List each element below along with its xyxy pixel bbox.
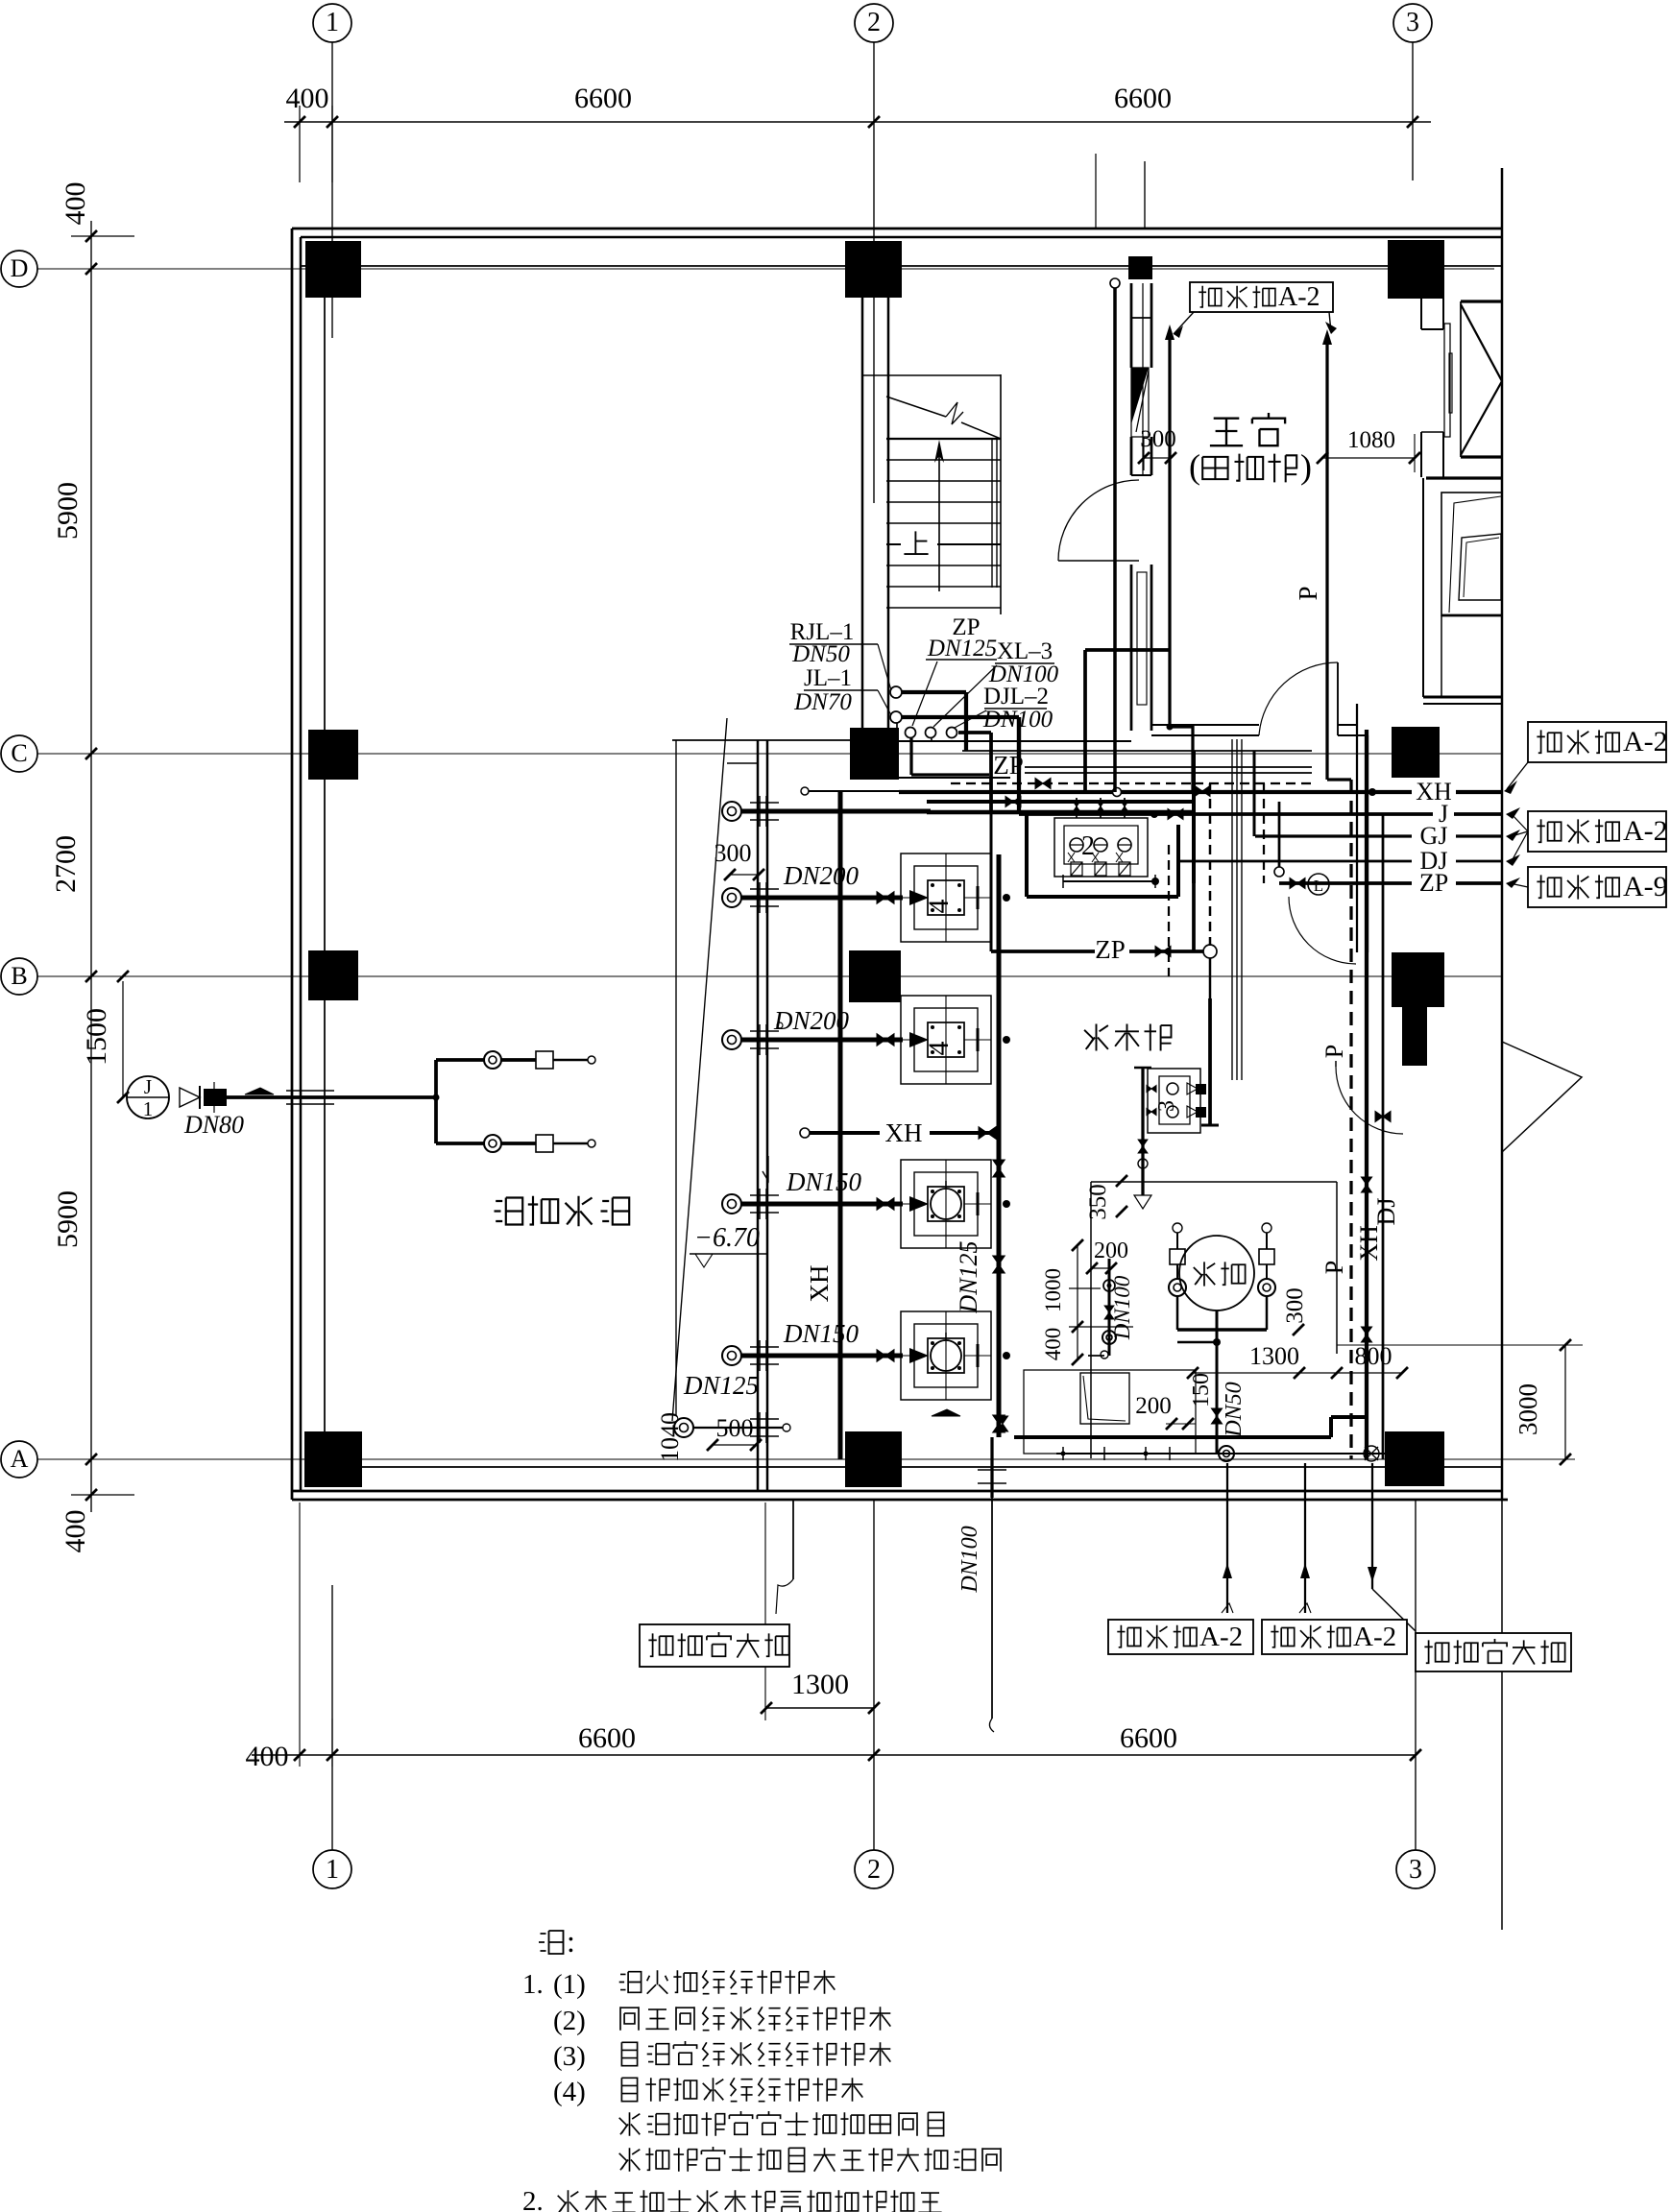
floor drain box xyxy=(1024,1370,1196,1454)
elevator shaft wall stub upper xyxy=(1420,299,1422,329)
tank connection left xyxy=(1173,1223,1182,1233)
svg-text:2: 2 xyxy=(1081,831,1095,861)
grid circle 2 bottom xyxy=(855,1850,893,1888)
svg-text:(1): (1) xyxy=(553,1969,586,2000)
svg-text:D: D xyxy=(11,254,29,282)
column A3 xyxy=(1385,1431,1444,1486)
svg-text:350: 350 xyxy=(1085,1184,1111,1220)
fire hydrant cabinet xyxy=(1131,368,1149,424)
svg-text:−6.70: −6.70 xyxy=(694,1223,760,1253)
wall pier D2.5 xyxy=(1128,256,1152,279)
water tank xyxy=(1179,1236,1254,1310)
fire pool east wall xyxy=(757,740,760,1491)
pressure gauge L xyxy=(1308,874,1329,895)
GJ main xyxy=(1255,834,1502,837)
pump group 2 assembly xyxy=(1054,818,1148,877)
wall sleeve at inlet xyxy=(286,1090,334,1092)
svg-text:400: 400 xyxy=(60,182,91,226)
front room west wall upper xyxy=(1130,283,1133,368)
DN100 outlet xyxy=(990,1437,993,1498)
stair label Shang xyxy=(904,531,928,554)
pump group 3 feed pipe xyxy=(1141,1068,1144,1195)
svg-text:DN125: DN125 xyxy=(955,1240,982,1313)
svg-text:2: 2 xyxy=(867,8,881,37)
inner wall face top xyxy=(301,265,1502,267)
manifold verticals xyxy=(990,751,993,951)
ZP down to pump room xyxy=(1209,958,1212,998)
pipe to teaching building left xyxy=(792,1500,794,1579)
outer wall left xyxy=(291,228,294,1500)
tank feed pipe DN100 xyxy=(1108,1259,1111,1356)
ZP main lower xyxy=(1279,881,1502,885)
suction pipe 6 DN125 xyxy=(674,1418,693,1437)
svg-text:DN50: DN50 xyxy=(1222,1382,1247,1437)
svg-text:400: 400 xyxy=(246,1741,289,1772)
tank stand xyxy=(1176,1295,1179,1330)
pump room east door arc xyxy=(1336,1067,1403,1134)
svg-text:3: 3 xyxy=(1409,1855,1422,1885)
pump group 2 discharge xyxy=(1027,895,1178,899)
stair up arrow xyxy=(938,451,940,591)
dim 300 pool xyxy=(730,874,759,876)
A-2 outlet pipe 1 xyxy=(1226,1463,1228,1613)
left dim text 1500 xyxy=(122,981,124,1097)
svg-text:1.: 1. xyxy=(522,1969,544,2000)
svg-text:150: 150 xyxy=(1189,1373,1214,1407)
front room west wall lower xyxy=(1130,565,1133,731)
column C2 xyxy=(850,728,899,780)
svg-text:800: 800 xyxy=(1355,1342,1392,1370)
leader box A-2 mid right xyxy=(1528,811,1666,852)
grid line 3 top xyxy=(1412,42,1414,180)
note 1 line 5 xyxy=(619,2112,641,2135)
riser DJ east xyxy=(1382,814,1385,1459)
svg-text:1080: 1080 xyxy=(1347,427,1395,453)
svg-text:DN70: DN70 xyxy=(793,689,852,715)
svg-text:DN100: DN100 xyxy=(982,707,1053,733)
svg-text:P: P xyxy=(1320,1045,1348,1058)
lobby south wall / pump room door wall xyxy=(1423,696,1502,699)
riser pipes xyxy=(902,690,966,694)
lobby door arc xyxy=(1289,897,1356,964)
grid line 2 bottom xyxy=(873,1500,875,1850)
leader box A-2 top xyxy=(1190,282,1333,312)
elevator wall stub mid xyxy=(1420,432,1422,477)
pump group 3 right pipe xyxy=(1208,998,1212,1125)
svg-text:JL–1: JL–1 xyxy=(804,665,852,691)
lobby east wall xyxy=(1356,704,1358,952)
grid line 2 top xyxy=(873,42,875,503)
grid line 1 bottom xyxy=(331,1585,333,1850)
top dimension line xyxy=(284,121,1431,123)
outer wall right xyxy=(1501,168,1504,1500)
XH riser front room xyxy=(1168,331,1171,727)
svg-text:XH: XH xyxy=(1355,1225,1383,1262)
inner wall face bottom xyxy=(362,1466,1502,1468)
A-2 outlet pipe 2 xyxy=(1304,1463,1306,1613)
dashed riser below XH elbow xyxy=(1168,845,1170,976)
notes title xyxy=(539,1931,564,1954)
inner wall face left xyxy=(324,298,326,1459)
svg-text:(4): (4) xyxy=(553,2077,586,2107)
svg-text:XH: XH xyxy=(885,1118,923,1147)
svg-text:GJ: GJ xyxy=(1420,822,1448,850)
bottom dim 1300 xyxy=(766,1707,874,1709)
ZP dashed riser xyxy=(1263,783,1265,883)
dim 200 tank feed xyxy=(1092,1267,1111,1269)
svg-text:3: 3 xyxy=(1406,8,1419,37)
leader box A-2 top right xyxy=(1528,722,1666,762)
fire pool inner slant wall xyxy=(672,718,727,1421)
top dim extension lines xyxy=(299,106,301,182)
front room door arc xyxy=(1058,480,1139,561)
svg-text:300: 300 xyxy=(1282,1287,1308,1324)
stair left wall xyxy=(861,266,864,728)
bottom flange pipe xyxy=(1056,1453,1388,1455)
elevator 1 cab xyxy=(1461,300,1502,302)
suction pipe 3 DN200 xyxy=(722,1030,741,1049)
XH main vertical xyxy=(838,790,843,1459)
svg-text:A-2: A-2 xyxy=(1353,1622,1396,1652)
svg-text:500: 500 xyxy=(716,1414,754,1442)
column A1 xyxy=(304,1431,362,1487)
outer wall bottom xyxy=(292,1490,1502,1493)
stair stringer xyxy=(991,439,993,588)
elevator 2 pit xyxy=(1441,615,1442,697)
flow arrow bottom xyxy=(932,1409,960,1416)
svg-text:200: 200 xyxy=(1094,1238,1128,1263)
svg-text:2.: 2. xyxy=(522,2186,544,2212)
column B1 xyxy=(308,950,358,1000)
pump discharge header right xyxy=(997,854,1002,1437)
grid circle 1 top xyxy=(313,4,351,42)
wall break symbol right xyxy=(1502,1042,1582,1152)
suction pipe 2 DN200 xyxy=(722,888,741,907)
svg-text:1: 1 xyxy=(326,1855,339,1885)
pump room label xyxy=(1084,1024,1108,1051)
pump group 2 flange line xyxy=(1063,880,1155,882)
svg-text:L: L xyxy=(1314,877,1323,895)
column C1 xyxy=(308,730,358,780)
P riser front room xyxy=(1325,338,1328,780)
riser circles xyxy=(890,686,902,698)
front room south door arc xyxy=(1259,662,1338,735)
grid line 3 bottom xyxy=(1415,1500,1417,1850)
svg-text:DJ: DJ xyxy=(1372,1198,1400,1226)
svg-text:6600: 6600 xyxy=(574,83,632,114)
svg-text:A-9: A-9 xyxy=(1623,871,1668,902)
svg-text:A-2: A-2 xyxy=(1623,726,1668,757)
teaching building box right xyxy=(1416,1633,1571,1671)
svg-text:XL–3: XL–3 xyxy=(997,638,1053,664)
svg-text:400: 400 xyxy=(60,1510,91,1553)
stair break line xyxy=(886,397,946,417)
suction pipe upper thin xyxy=(801,787,809,795)
svg-text:DN150: DN150 xyxy=(786,1167,862,1196)
svg-text:A: A xyxy=(11,1445,29,1473)
grid circle D xyxy=(1,251,37,287)
svg-text:1: 1 xyxy=(143,1097,154,1120)
check valve xyxy=(180,1088,200,1107)
dim 300 front room xyxy=(1144,457,1171,459)
suction pipe 4 DN150 xyxy=(722,1194,741,1214)
svg-text:400: 400 xyxy=(286,83,329,114)
elevator 2 cab xyxy=(1426,476,1502,479)
pump group 3 assembly xyxy=(1148,1069,1200,1133)
svg-text:1300: 1300 xyxy=(1249,1342,1299,1370)
manifold lines top xyxy=(962,750,1312,752)
svg-text:400: 400 xyxy=(1041,1328,1065,1361)
svg-text:DN200: DN200 xyxy=(783,861,860,890)
svg-text:DN100: DN100 xyxy=(957,1526,982,1593)
column C3 xyxy=(1392,727,1440,778)
dims 1000 400 tank feed xyxy=(1077,1245,1078,1359)
front room label xyxy=(1210,419,1243,446)
bottom dim extension x346 xyxy=(331,1719,333,1767)
XH branch line xyxy=(800,1128,810,1138)
tank connection right xyxy=(1262,1223,1271,1233)
svg-text:3000: 3000 xyxy=(1514,1383,1542,1435)
manifold dashed ZP xyxy=(951,782,1194,784)
pump pad 4 xyxy=(901,1311,991,1400)
column D3 xyxy=(1388,240,1444,299)
elevator 1 door xyxy=(1444,324,1450,437)
svg-text:XH: XH xyxy=(805,1265,834,1303)
left dim ext bottom xyxy=(71,1494,134,1496)
pump pad 3 xyxy=(901,1160,991,1248)
teaching building box left xyxy=(640,1624,789,1667)
outer wall top xyxy=(292,228,1502,230)
grid circle 3 top xyxy=(1393,4,1432,42)
grid circle B xyxy=(1,958,37,995)
fire pool north edge xyxy=(672,739,850,741)
svg-text:6600: 6600 xyxy=(578,1722,636,1754)
XH main to wall xyxy=(899,790,1502,794)
svg-text:300: 300 xyxy=(1140,426,1176,452)
svg-text:4: 4 xyxy=(923,1042,955,1056)
bottom dimension line xyxy=(252,1754,1416,1756)
svg-text:(2): (2) xyxy=(553,2006,586,2036)
svg-text:DN100: DN100 xyxy=(1110,1275,1134,1340)
front room south wall xyxy=(1151,724,1259,726)
dim 3000 xyxy=(1564,1345,1566,1459)
pipe labels right side xyxy=(1412,780,1456,803)
column A2 xyxy=(845,1431,902,1487)
bottom dim extension x312 xyxy=(299,1503,301,1767)
svg-text:200: 200 xyxy=(1135,1393,1172,1419)
dim 500 xyxy=(713,1444,756,1446)
grid circle C xyxy=(1,735,37,772)
pump pad 1 xyxy=(901,854,991,942)
inlet pipe DN80 xyxy=(227,1095,436,1099)
manifold line3 xyxy=(1002,790,1312,792)
pump room north wall xyxy=(899,740,1131,742)
dims 1300 800 xyxy=(1193,1372,1402,1374)
grid line A xyxy=(37,1458,1575,1460)
column B3 lower stub xyxy=(1402,1007,1427,1066)
svg-text:1500: 1500 xyxy=(81,1008,112,1066)
svg-text:B: B xyxy=(11,962,27,990)
column D1 xyxy=(305,241,361,298)
fire pool label XiaoFangShuiChi xyxy=(495,1198,523,1225)
svg-text:A-2: A-2 xyxy=(1623,815,1668,847)
svg-text:(3): (3) xyxy=(553,2041,586,2072)
grid circle A xyxy=(1,1441,37,1478)
leader box A-9 right xyxy=(1528,867,1666,907)
DJ main xyxy=(1178,860,1502,863)
stair treads xyxy=(886,438,1001,440)
svg-text:5900: 5900 xyxy=(52,1190,84,1248)
svg-text:2: 2 xyxy=(867,1855,881,1885)
svg-text:6600: 6600 xyxy=(1114,83,1172,114)
grid line C xyxy=(37,753,1502,755)
pump pad 2 xyxy=(901,996,991,1084)
svg-text:2700: 2700 xyxy=(50,835,82,893)
front room south door jamb xyxy=(1337,662,1339,735)
svg-text:A-2: A-2 xyxy=(1278,282,1320,312)
tank room enclosure xyxy=(1091,1181,1337,1183)
A-2 box bottom 1 xyxy=(1108,1620,1253,1654)
riser XH east xyxy=(1365,730,1368,1459)
grid line B xyxy=(37,975,1502,977)
ZP lower branch xyxy=(991,950,1095,953)
svg-text:1040: 1040 xyxy=(656,1412,684,1462)
J main xyxy=(1019,812,1502,816)
svg-text:ZP: ZP xyxy=(1095,935,1126,964)
XL-3 riser drop xyxy=(1083,650,1087,792)
svg-text:4: 4 xyxy=(923,900,955,914)
svg-text:DN80: DN80 xyxy=(183,1111,244,1139)
grid circle 3 bottom xyxy=(1396,1850,1435,1888)
column B3 xyxy=(1392,952,1444,1007)
svg-text:J: J xyxy=(144,1075,152,1098)
A-2 box bottom 2 xyxy=(1262,1620,1407,1654)
grid line 1 top xyxy=(331,42,333,338)
svg-text:5900: 5900 xyxy=(52,482,84,540)
svg-text:1000: 1000 xyxy=(1041,1268,1065,1312)
note 1 line 6 xyxy=(619,2148,641,2171)
svg-text:DN50: DN50 xyxy=(791,641,850,667)
svg-text:DJL–2: DJL–2 xyxy=(983,684,1049,709)
left dimension line xyxy=(90,221,92,1512)
svg-text::: : xyxy=(567,1924,575,1959)
bottom thick pipe xyxy=(1014,1435,1331,1439)
svg-text:C: C xyxy=(11,739,27,767)
svg-text:1: 1 xyxy=(326,8,339,37)
ZP riser front room xyxy=(1110,278,1120,288)
left dim ext top xyxy=(71,235,134,237)
suction pipe 5 DN150 xyxy=(722,1346,741,1365)
svg-text:A-2: A-2 xyxy=(1199,1622,1243,1652)
svg-text:DN125: DN125 xyxy=(927,636,997,661)
svg-text:300: 300 xyxy=(714,839,752,867)
front room west wall mid xyxy=(1130,437,1133,475)
stair right wall xyxy=(1000,374,1002,614)
stair top edge xyxy=(862,374,1001,376)
grid line D xyxy=(37,268,1494,270)
column B2 xyxy=(849,950,901,1002)
pipe riser J1 xyxy=(127,1076,169,1118)
svg-text:(: ( xyxy=(1189,447,1200,486)
tank bottom pipe xyxy=(1216,1310,1219,1454)
extension line x1141 xyxy=(1095,154,1097,228)
svg-text:DN125: DN125 xyxy=(683,1371,759,1400)
dim 1080 xyxy=(1322,457,1415,459)
svg-text:6600: 6600 xyxy=(1120,1722,1177,1754)
svg-text:P: P xyxy=(1294,586,1322,600)
manifold thick upper xyxy=(927,800,1194,804)
grid circle 2 top xyxy=(855,4,893,42)
pool fill branch pipes xyxy=(434,1060,438,1143)
svg-text:1300: 1300 xyxy=(791,1669,849,1700)
grid circle 1 bottom xyxy=(313,1850,351,1888)
svg-text:DN150: DN150 xyxy=(783,1319,860,1348)
right wall below building xyxy=(1501,1500,1503,1930)
svg-text:): ) xyxy=(1300,447,1312,486)
svg-text:ZP: ZP xyxy=(1419,869,1448,897)
manifold thick lower xyxy=(927,810,1154,815)
gate valve solid xyxy=(204,1089,227,1106)
svg-text:3: 3 xyxy=(1154,1100,1179,1112)
suction pipe 1 (pump2 group feed) xyxy=(722,802,741,821)
teaching building outlet pipe right xyxy=(1371,1463,1373,1589)
svg-text:P: P xyxy=(1320,1261,1348,1274)
column D2 xyxy=(845,241,902,298)
